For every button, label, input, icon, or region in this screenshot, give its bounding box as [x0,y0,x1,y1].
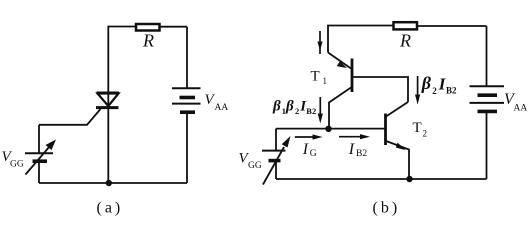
thyristor (a) triangle [98,94,119,107]
thyristor (a) anode bar [97,92,120,95]
label IG [302,141,317,159]
svg-text:GG: GG [248,161,262,171]
battery VAA (a) long plate 1 [172,87,201,89]
wire T1 collector: diagonal + vertical to node [329,88,351,129]
svg-text:2: 2 [295,106,299,116]
wire right branch lower (a) [186,112,188,183]
label VGG (b) [239,151,262,171]
battery VGG (b) long plate [262,150,286,152]
wire resistor to right corner (b) [418,25,487,27]
wire top-left branch (a): anode vertical + top wire to resistor [108,27,135,184]
wire bottom (a) [39,182,187,184]
junction dot gate node (b) [325,126,331,132]
variable-source arrow through VGG (a) [26,140,57,175]
svg-text:AA: AA [215,103,229,113]
battery VAA (a) short plate 2 [180,110,195,114]
wire T1 base to T2 collector corner [352,77,408,102]
label T2 [413,120,428,139]
svg-text:2: 2 [423,129,428,139]
svg-text:AA: AA [514,104,528,114]
wire resistor to right corner (a) [161,26,188,28]
battery VAA (b) short plate 2 [478,110,498,114]
label VAA (b) [504,91,527,114]
wire VGG branch upper (b) [275,129,277,151]
label beta2 IB2 [421,73,457,96]
label VAA (a) [205,92,229,113]
svg-text:T: T [311,69,320,85]
battery VAA (b) short plate 1 [478,93,498,97]
svg-text:(a): (a) [97,200,124,217]
battery VAA (a) long plate 2 [172,103,201,105]
junction dot (b) cathode/bottom node [406,176,412,182]
current arrow IB2 [339,134,370,139]
svg-text:I: I [348,141,355,158]
gate node wire (b) [276,128,386,130]
current arrow beta2 IB2 [415,76,420,105]
svg-text:B2: B2 [356,149,367,159]
wire gate (a): diagonal + horizontal to VGG [39,109,101,125]
transistor T1 emitter wire with arrow [328,53,351,69]
svg-text:I: I [302,141,309,158]
svg-text:R: R [142,31,154,51]
current arrow IG [295,134,323,139]
wire VGG branch lower (a) [38,161,40,183]
battery VAA (b) long plate 2 [470,102,505,104]
wire T2 collector diagonal [386,102,408,117]
svg-text:1: 1 [323,76,328,86]
battery VAA (a) short plate 1 [180,96,196,100]
resistor R (b) body [394,22,418,29]
wire VGG branch upper (a) [38,125,40,153]
transistor T1 base bar [351,59,354,93]
thyristor (a) cathode bar [96,106,119,109]
svg-text:(b): (b) [373,200,401,217]
svg-text:β: β [285,99,294,115]
label VGG (a) [2,149,24,170]
wire bottom (b) [276,178,487,180]
transistor T2 emitter wire with arrow [386,141,409,179]
svg-text:G: G [310,149,317,159]
wire right branch lower (b) [486,111,488,179]
wire right branch upper (b) [486,26,488,86]
svg-text:β: β [272,99,281,115]
svg-text:GG: GG [10,160,24,170]
resistor R (a) body [136,24,160,31]
wire right branch upper (a) [186,27,188,88]
svg-text:R: R [399,31,411,51]
label T1 [311,69,328,87]
battery VGG (a) long plate [25,152,53,154]
svg-text:B2: B2 [446,85,457,95]
svg-text:2: 2 [432,86,437,96]
label IB2 [348,141,368,159]
transistor T2 base bar [384,114,387,146]
wire top-left corner (b): vertical + top wire to resistor [328,26,393,53]
junction dot (a) cathode/bottom node [106,180,112,186]
svg-text:β: β [421,73,432,93]
current arrow beta1beta2IB2 (b) [318,97,323,124]
battery VGG (b) short plate [269,159,281,163]
battery VAA (b) long plate 1 [470,85,505,87]
battery VGG (a) short plate [33,159,48,163]
wire VGG branch lower (b) [275,161,277,179]
variable-source arrow through VGG (b) [263,136,291,185]
svg-text:T: T [413,120,422,136]
anode current arrow (b) [317,31,322,54]
label beta1 beta2 IB2 [272,99,316,117]
svg-text:B2: B2 [306,106,316,116]
